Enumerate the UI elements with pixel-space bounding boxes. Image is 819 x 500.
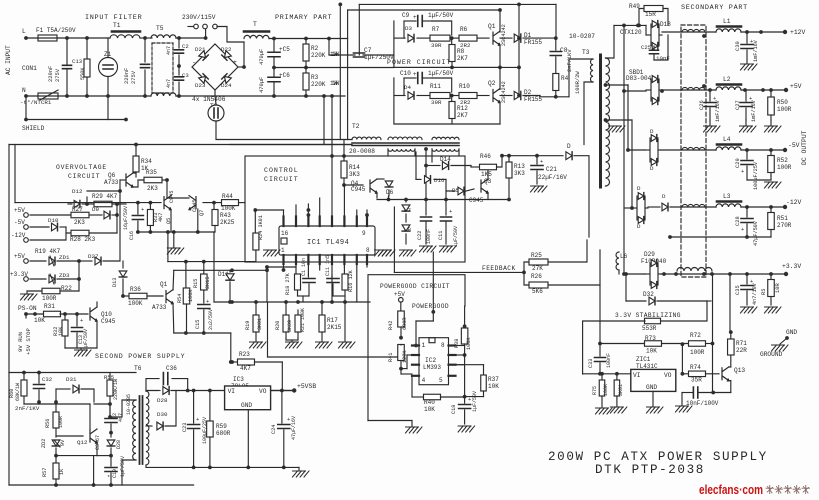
resistor R3 <box>305 68 307 74</box>
svg-text:C11 1n5: C11 1n5 <box>325 255 331 276</box>
svg-text:2SC4242: 2SC4242 <box>501 81 507 103</box>
svg-text:D28: D28 <box>157 397 168 404</box>
svg-text:4n7: 4n7 <box>166 46 172 55</box>
resistor R13 <box>508 156 510 162</box>
svg-text:220K/1W: 220K/1W <box>113 379 119 400</box>
svg-text:D22: D22 <box>221 46 232 53</box>
svg-text:2R2: 2R2 <box>460 99 471 106</box>
svg-text:680R: 680R <box>402 318 408 330</box>
svg-text:+: + <box>449 209 452 215</box>
wire switch to rail <box>205 29 207 38</box>
capacitor C9 <box>404 20 416 22</box>
wire zd joint <box>78 261 80 291</box>
wire mid-rail drop <box>518 38 520 95</box>
resistor R10 <box>450 95 459 97</box>
svg-text:39R: 39R <box>431 99 442 106</box>
svg-text:4n7: 4n7 <box>166 79 172 88</box>
capacitor C1 <box>307 275 309 277</box>
wire r35 node <box>165 178 169 182</box>
svg-text:DTK PTP-2038: DTK PTP-2038 <box>595 463 705 477</box>
svg-text:*: * <box>107 475 110 481</box>
svg-text:R19: R19 <box>245 321 251 330</box>
svg-text:100nF: 100nF <box>426 229 432 244</box>
svg-text:C1 10n: C1 10n <box>301 258 307 276</box>
zener ZD1 <box>30 260 46 262</box>
svg-text:4n7/10V: 4n7/10V <box>752 282 758 305</box>
capacitor C4 <box>144 38 146 62</box>
resistor R4 <box>553 74 559 91</box>
svg-text:16µF/50V: 16µF/50V <box>123 206 129 230</box>
svg-text:ZD1: ZD1 <box>59 254 70 261</box>
terminal -12V <box>783 205 787 209</box>
wire c11 join <box>333 295 345 297</box>
svg-text:L1: L1 <box>723 18 731 25</box>
wire T3 primary top <box>569 59 593 97</box>
ground IC1 left <box>264 250 281 256</box>
choke winding -12V <box>682 204 705 207</box>
svg-text:R24 3K01: R24 3K01 <box>258 215 264 240</box>
svg-text:220nF: 220nF <box>48 66 54 82</box>
svg-text:D30: D30 <box>157 411 168 418</box>
svg-text:C945: C945 <box>469 197 484 204</box>
wire left frame top <box>9 144 352 146</box>
svg-text:A733: A733 <box>104 179 119 186</box>
svg-text:D23: D23 <box>195 82 206 89</box>
svg-text:R54: R54 <box>177 294 183 303</box>
svg-text:220K: 220K <box>311 52 326 59</box>
wire q5q7 mid rail <box>168 261 256 263</box>
resistor R12 <box>451 96 453 102</box>
wire mid rail to power circuit <box>306 67 394 69</box>
svg-text:+5V STOP: +5V STOP <box>25 328 32 355</box>
terminal +5V sense <box>24 213 29 218</box>
resistor R23 <box>231 361 237 363</box>
wire t6 sec bottom <box>146 465 194 467</box>
wire d12 up <box>86 197 88 204</box>
svg-text:100R: 100R <box>690 349 705 356</box>
wire sec tap 5V <box>604 83 608 87</box>
wire switch to doubler node <box>217 27 244 43</box>
diode D3 <box>394 37 405 39</box>
svg-text:GND: GND <box>241 402 252 409</box>
wire aux left column <box>415 152 417 179</box>
terminal -5V <box>783 148 787 152</box>
svg-text:SHIELD: SHIELD <box>22 125 45 132</box>
wire q4d6 drop <box>388 196 390 200</box>
svg-text:R23: R23 <box>239 351 250 358</box>
wire tl431 vi rail <box>583 373 631 375</box>
svg-text:GROUND: GROUND <box>760 351 783 358</box>
wire zd2 mid <box>56 455 97 457</box>
svg-text:100R: 100R <box>777 106 792 113</box>
wire q11 bottom rail <box>174 332 231 334</box>
svg-text:1µF/50V: 1µF/50V <box>472 391 478 412</box>
power circuit lower box <box>394 78 500 124</box>
svg-text:R13: R13 <box>514 163 525 170</box>
svg-text:C3: C3 <box>182 72 189 79</box>
svg-text:CTX120: CTX120 <box>620 29 642 36</box>
svg-text:4x 1N5406: 4x 1N5406 <box>192 96 226 103</box>
ground R22 <box>21 294 38 300</box>
resistor R59 <box>209 391 211 422</box>
wire R14 feeds <box>331 96 333 156</box>
svg-text:C33: C33 <box>588 359 594 368</box>
wire C8R4 bottom <box>540 96 569 98</box>
svg-text:470µF: 470µF <box>259 77 265 93</box>
svg-text:R38: R38 <box>454 339 460 348</box>
wire c8 top drop <box>555 4 557 38</box>
svg-text:C945: C945 <box>101 318 116 325</box>
wire d7 rail <box>387 198 391 202</box>
logo cjk <box>766 486 774 494</box>
wire d11 node <box>228 300 232 304</box>
wire pg sense <box>267 302 269 357</box>
svg-text:+: + <box>741 227 744 233</box>
svg-text:-12V: -12V <box>11 232 26 239</box>
node bus <box>282 268 286 272</box>
terminal +3.3V ov <box>24 277 29 282</box>
svg-text:T1: T1 <box>113 22 121 29</box>
svg-text:R3: R3 <box>311 74 319 81</box>
wire bridge plus to T <box>238 66 244 68</box>
svg-text:+: + <box>540 159 543 165</box>
resistor R35 <box>133 172 136 173</box>
svg-text:Q1: Q1 <box>160 281 168 288</box>
wire sps bottom rail <box>9 484 194 486</box>
wire shield <box>26 119 126 121</box>
wire d11 bus link <box>266 267 268 270</box>
capacitor C13b <box>76 314 78 326</box>
wire q11 emitter <box>172 303 175 333</box>
resistor R57 <box>55 456 57 463</box>
svg-text:2K25: 2K25 <box>220 219 235 226</box>
svg-text:D9: D9 <box>92 206 99 213</box>
wire T2 feedthrough down <box>216 121 352 140</box>
svg-text:CONTROL: CONTROL <box>264 167 299 174</box>
ground R19 <box>250 342 267 348</box>
svg-text:C19: C19 <box>112 469 118 478</box>
capacitor C11a <box>331 275 333 277</box>
svg-text:F1 T5A/250V: F1 T5A/250V <box>36 27 76 34</box>
svg-text:100nF: 100nF <box>606 353 612 368</box>
svg-text:T3: T3 <box>582 49 590 56</box>
svg-text:-t°/NTCR1: -t°/NTCR1 <box>20 99 52 106</box>
ground IC1 right <box>375 250 392 256</box>
wire t6 primary bottom <box>122 460 136 485</box>
svg-text:C30: C30 <box>735 41 741 51</box>
resistor R5 <box>770 274 772 280</box>
resistor R51 <box>770 207 772 213</box>
svg-text:470µF: 470µF <box>259 49 265 65</box>
wire ic1 bottom bus <box>283 264 285 270</box>
svg-text:9: 9 <box>362 230 366 237</box>
resistor R38 <box>464 306 466 328</box>
svg-text:GND: GND <box>646 384 657 391</box>
svg-text:100K: 100K <box>221 205 236 212</box>
svg-text:A733: A733 <box>152 304 167 311</box>
svg-text:D4: D4 <box>404 84 411 91</box>
ground row under 5V <box>704 126 721 132</box>
resistor R1 <box>85 36 89 40</box>
capacitor C16 <box>137 203 139 214</box>
svg-text:Q1: Q1 <box>488 23 496 30</box>
ground C21 <box>531 186 548 192</box>
svg-text:T5: T5 <box>156 25 164 32</box>
svg-text:IC1 TL494: IC1 TL494 <box>307 239 349 247</box>
svg-text:OVERVOLTAGE: OVERVOLTAGE <box>56 164 107 171</box>
svg-text:3K01: 3K01 <box>618 384 624 396</box>
svg-text:2K15: 2K15 <box>205 277 211 289</box>
capacitor C35 <box>746 274 748 284</box>
capacitor C33 <box>598 342 602 346</box>
svg-text:4: 4 <box>422 377 426 384</box>
terminal -12V sense <box>24 238 29 243</box>
wire q13 collector <box>729 366 731 368</box>
svg-text:+: + <box>468 397 471 403</box>
svg-text:CIRCUIT: CIRCUIT <box>264 176 299 183</box>
svg-text:+C6: +C6 <box>279 72 290 79</box>
svg-text:10nF: 10nF <box>656 55 670 62</box>
wire R16 to ground <box>339 342 356 348</box>
ground sps <box>298 467 300 470</box>
ground pg1 <box>411 421 413 427</box>
choke dashed box <box>681 25 706 277</box>
svg-text:VI: VI <box>633 372 641 379</box>
svg-text:Z1: Z1 <box>104 51 112 58</box>
svg-text:R21 100K: R21 100K <box>300 308 306 332</box>
wire -12V input <box>624 207 632 209</box>
wire r23 drop <box>281 362 283 391</box>
resistor R75 <box>601 374 603 380</box>
svg-text:1: 1 <box>422 342 426 349</box>
wire aux bus <box>377 199 509 201</box>
diode D24 <box>224 76 231 83</box>
wire IC1 pin wires top <box>283 210 285 217</box>
wire top rail to switch area <box>176 37 206 39</box>
svg-text:R11: R11 <box>430 83 441 90</box>
wire D18 input <box>614 24 646 26</box>
wire r38 down <box>463 395 467 399</box>
wire sec tap 12Vn <box>604 118 608 122</box>
svg-text:R40: R40 <box>424 399 435 406</box>
resistor R74 <box>682 373 689 375</box>
svg-text:C9: C9 <box>402 12 410 19</box>
svg-text:5: 5 <box>439 377 443 384</box>
zener ZD2 <box>52 440 60 446</box>
wire ov bottom rail <box>138 231 214 233</box>
wire D29 input <box>624 273 645 275</box>
wire pg box bottom <box>368 420 412 422</box>
resistor R18 <box>295 267 297 274</box>
svg-text:R7: R7 <box>432 26 440 33</box>
svg-text:INPUT FILTER: INPUT FILTER <box>85 14 142 22</box>
svg-text:D18: D18 <box>660 21 671 28</box>
svg-text:10K: 10K <box>424 406 435 413</box>
svg-text:POWERGOOD CIRCUIT: POWERGOOD CIRCUIT <box>380 283 450 290</box>
svg-text:R43: R43 <box>220 212 231 219</box>
svg-text:N: N <box>22 87 26 94</box>
svg-text:35R: 35R <box>691 377 702 384</box>
resistor R27 <box>30 214 71 216</box>
wire q13 emitter <box>729 380 731 382</box>
wire T2 left post <box>230 144 352 146</box>
powergood box <box>368 275 465 421</box>
svg-text:680R: 680R <box>216 430 231 437</box>
capacitor 10nF 100V <box>693 387 697 398</box>
svg-text:1µF/50V: 1µF/50V <box>83 329 89 350</box>
svg-text:2nF/1KV: 2nF/1KV <box>15 405 40 412</box>
capacitor C25 <box>653 46 655 49</box>
IC2 pins <box>412 344 419 346</box>
resistor R16 <box>343 267 345 274</box>
svg-text:L3: L3 <box>723 193 731 200</box>
wire r46 up <box>497 156 502 167</box>
wire top feed <box>359 3 556 5</box>
wire d1 column <box>517 3 521 7</box>
wire SBD1 input <box>624 90 646 92</box>
svg-text:LM393: LM393 <box>423 364 441 371</box>
wire t6 primary top <box>110 400 136 417</box>
resistor R36b <box>123 295 129 297</box>
wire 3.3V sense drop <box>729 274 731 331</box>
svg-text:GND: GND <box>786 329 797 336</box>
IC1 top pins <box>282 217 284 227</box>
svg-text:R35: R35 <box>146 169 157 176</box>
svg-text:+: + <box>750 39 753 45</box>
wire r23 link <box>230 333 232 362</box>
wire q4 links <box>376 193 378 198</box>
resistor R71 <box>729 330 733 334</box>
power circuit upper box <box>394 21 500 67</box>
svg-text:C29: C29 <box>735 158 741 168</box>
svg-text:C35: C35 <box>735 285 741 295</box>
svg-text:R5: R5 <box>761 289 767 295</box>
resistor R73 <box>599 343 644 345</box>
svg-text:R36: R36 <box>130 286 141 293</box>
svg-text:1µF/50V: 1µF/50V <box>453 226 459 247</box>
wire bridge bottom down <box>214 90 216 96</box>
resistor R56 <box>55 402 57 412</box>
svg-text:+3.3V: +3.3V <box>782 263 801 270</box>
svg-text:2K7: 2K7 <box>457 112 468 119</box>
svg-text:100K: 100K <box>466 337 472 350</box>
wire 3.3V rail <box>661 273 786 275</box>
ground C35 <box>741 307 758 313</box>
wire top rail 2 <box>348 9 500 11</box>
wire C9 loop <box>432 21 452 35</box>
svg-text:+5V: +5V <box>790 83 802 90</box>
diode D2 <box>500 95 512 97</box>
svg-text:100µF/25V: 100µF/25V <box>753 161 759 190</box>
wire q1 junctions <box>499 30 501 32</box>
wire q11 collector <box>172 270 175 290</box>
svg-text:R2: R2 <box>311 45 319 52</box>
resistor R76 <box>616 374 618 380</box>
svg-text:2K3: 2K3 <box>74 219 85 226</box>
svg-text:3K09: 3K09 <box>287 320 293 332</box>
svg-text:D: D <box>650 128 654 135</box>
svg-text:L6: L6 <box>620 253 628 260</box>
wire c2b top <box>94 403 110 405</box>
svg-text:22µF/16V: 22µF/16V <box>538 174 567 181</box>
ground ov <box>173 232 175 248</box>
svg-text:16: 16 <box>281 230 289 237</box>
svg-text:FR155: FR155 <box>524 39 542 46</box>
svg-text:R14: R14 <box>349 164 360 171</box>
wire L rail <box>26 37 110 39</box>
svg-text:R20: R20 <box>275 321 281 330</box>
svg-text:8: 8 <box>441 342 445 349</box>
ground R75 <box>596 408 613 414</box>
capacitor C32 <box>38 373 40 384</box>
capacitor C2 <box>177 36 181 40</box>
svg-text:R44: R44 <box>222 193 233 200</box>
ground R5 <box>765 307 782 313</box>
resistor R22 <box>42 288 60 294</box>
svg-text:C24: C24 <box>271 425 277 434</box>
resistor R41 <box>398 345 405 361</box>
svg-text:3K01: 3K01 <box>257 318 263 330</box>
resistor R8 <box>451 38 453 44</box>
capacitor C26 <box>709 90 711 101</box>
wire 78l05 gnd <box>247 410 249 468</box>
wire -12 bottom return <box>670 236 771 238</box>
svg-text:+3.3V: +3.3V <box>10 271 28 278</box>
svg-text:+: + <box>141 207 144 213</box>
wire d28b join <box>97 455 111 457</box>
svg-text:D21: D21 <box>195 46 206 53</box>
svg-text:+: + <box>287 417 290 423</box>
wire q10 wires <box>96 302 98 307</box>
terminal -5V sense <box>24 225 29 230</box>
svg-text:47µF/50V: 47µF/50V <box>753 220 759 246</box>
secondary feed verticals <box>623 25 625 274</box>
resistor R42 <box>400 302 402 311</box>
svg-text:2K7: 2K7 <box>457 55 468 62</box>
svg-text:R51: R51 <box>777 215 788 222</box>
wire -5V input <box>628 149 645 151</box>
svg-text:R29 4K7: R29 4K7 <box>92 193 118 200</box>
wire shield stub down <box>25 96 27 120</box>
capacitor C22 <box>425 198 427 215</box>
terminal +5V <box>784 88 788 92</box>
capacitor C7 <box>328 39 330 56</box>
zener ZD3 <box>30 278 46 280</box>
svg-text:R59: R59 <box>216 423 227 430</box>
ground cap100v <box>676 406 693 412</box>
wire 12V rail <box>662 31 716 33</box>
wire ps-on drop <box>25 314 27 318</box>
wire sps gnd rail <box>194 466 299 468</box>
svg-text:200W PC ATX POWER SUPPLY: 200W PC ATX POWER SUPPLY <box>548 450 768 464</box>
resistor R20 <box>285 302 287 315</box>
choke winding 3.3V <box>677 268 712 272</box>
svg-text:ZIC1: ZIC1 <box>636 356 651 363</box>
svg-text:+: + <box>80 318 83 324</box>
svg-text:+: + <box>233 59 237 66</box>
resistor R37 <box>483 365 485 375</box>
svg-text:+C5: +C5 <box>279 46 290 53</box>
svg-text:R75: R75 <box>592 386 598 395</box>
capacitor C23 <box>193 391 195 424</box>
wire aux d14 column <box>424 147 428 151</box>
wire q6 base net <box>120 179 126 181</box>
wire left frame verticals <box>8 145 10 486</box>
svg-text:15R: 15R <box>645 11 656 18</box>
svg-text:R6: R6 <box>460 26 468 33</box>
svg-text:IC2: IC2 <box>425 357 436 364</box>
svg-text:C16: C16 <box>129 231 135 240</box>
